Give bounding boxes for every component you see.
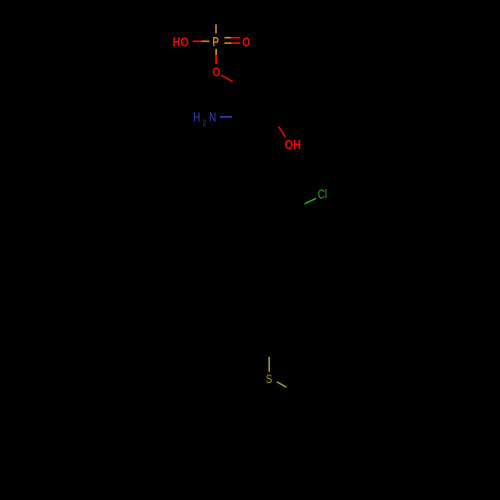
double bond P=O lower line (P half, gold) (224, 42, 231, 44)
double bond P=O upper line (O half, red) (231, 37, 240, 39)
svg-text:P: P (212, 34, 219, 49)
bond P-O ester (O half, red) (215, 55, 217, 64)
double bond P=O lower line (O half, red) (231, 42, 240, 44)
svg-text:S: S (266, 372, 272, 386)
svg-text:OH: OH (285, 137, 302, 152)
double bond P=O upper line (P half, gold) (224, 37, 231, 39)
bond HO-P (P half, gold) (201, 40, 209, 42)
svg-text:O: O (242, 35, 250, 50)
svg-text:2: 2 (203, 117, 207, 127)
svg-text:Cl: Cl (318, 187, 327, 202)
svg-text:H: H (193, 111, 200, 125)
svg-text:O: O (212, 65, 220, 80)
bond CH3-P (P half, gold) (215, 24, 217, 33)
svg-text:HO: HO (173, 34, 189, 49)
bond C-Cl (Cl half, green) (305, 198, 317, 203)
bond H2N-C (N half, blue) (220, 116, 232, 118)
bond HO-P (O half, red) (193, 40, 202, 42)
bond O-CH2 (O half, red) (221, 75, 233, 82)
bond S-C diagonal (S half, yellow) (277, 382, 287, 387)
bond P-O ester (P half, gold) (215, 49, 217, 55)
bond C-S vertical (S half, yellow) (268, 357, 270, 372)
svg-text:N: N (209, 111, 216, 125)
bond C-OH (O half, red) (279, 127, 286, 138)
